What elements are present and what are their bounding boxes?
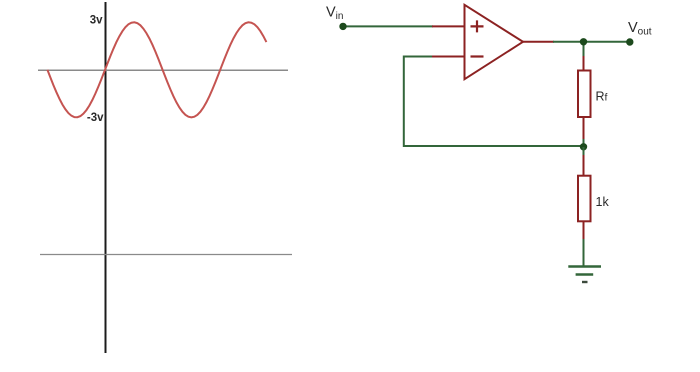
ground symbol middle bar: [576, 273, 594, 276]
svg-text:3v: 3v: [90, 15, 103, 27]
wire inverting input horizontal (green): [404, 56, 433, 58]
svg-text:Vout: Vout: [628, 20, 652, 37]
node Vin terminal dot: [340, 23, 346, 29]
sine wave (input signal): [47, 22, 266, 117]
ground symbol top bar: [568, 265, 601, 268]
op-amp U1 output pin: [523, 41, 554, 43]
op-amp U1 non-inverting input pin: [432, 25, 464, 27]
waveform vertical axis: [105, 2, 107, 353]
wire junction to Rf top (green): [583, 42, 585, 57]
node Vout terminal dot: [627, 39, 633, 45]
resistor 1k body: [578, 176, 591, 222]
op-amp U1 inverting input pin: [432, 56, 464, 58]
wire Vin node to op-amp + input (green): [343, 25, 433, 27]
resistor Rf top lead: [583, 56, 585, 71]
second horizontal axis: [40, 254, 292, 256]
svg-text:1k: 1k: [596, 195, 610, 209]
svg-text:Rf: Rf: [596, 90, 608, 104]
op-amp minus symbol: [471, 55, 484, 57]
ground symbol bottom dash: [582, 281, 588, 283]
node output junction dot: [580, 39, 586, 45]
wire feedback vertical left (green): [403, 56, 405, 148]
resistor 1k bottom lead: [583, 221, 585, 240]
op-amp plus symbol: [471, 20, 484, 32]
resistor 1k top lead: [583, 155, 585, 176]
wire 1k to ground (green): [583, 239, 585, 266]
resistor Rf bottom lead: [583, 117, 585, 140]
node feedback junction dot: [580, 144, 586, 150]
svg-text:-3v: -3v: [87, 112, 104, 124]
wire feedback bottom horizontal (green): [404, 145, 584, 147]
wire Rf to junction (green): [583, 139, 585, 147]
wire output to Vout (green): [553, 41, 630, 43]
wire junction to 1k (green): [583, 147, 585, 156]
resistor Rf body: [578, 71, 591, 118]
svg-text:Vin: Vin: [326, 5, 343, 22]
waveform horizontal axis (0V line): [38, 69, 288, 71]
op-amp U1 triangle body: [465, 5, 524, 79]
